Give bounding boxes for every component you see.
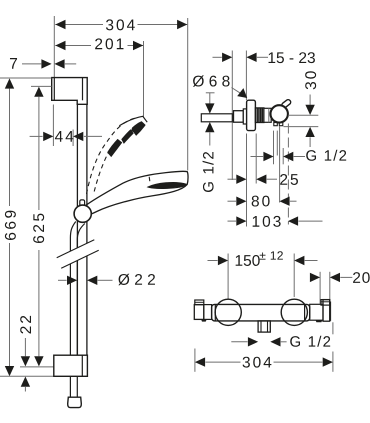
dim 625 extension top y=86.4	[31, 85, 52, 87]
hand shower solid: handle and head outline	[85, 171, 188, 216]
supply pipe stub through wall	[201, 114, 232, 122]
valve escutcheon (side view)	[247, 100, 256, 130]
label diameter 68 with leader arrow	[193, 75, 230, 86]
dim 7: arrows and text	[22, 63, 41, 65]
top wall bracket of slide bar	[52, 78, 87, 105]
wall extension line (left diagram, x=54.3)	[53, 16, 55, 78]
dim G1/2 of outlet (row) with leader to text	[251, 156, 264, 158]
hand shower holder circle on bar	[80, 200, 85, 208]
extension line escutcheon front x=246.4	[245, 51, 247, 101]
knob feet	[274, 123, 278, 126]
hand shower small tick on head	[148, 177, 151, 181]
bottom wall bracket of slide bar	[54, 355, 88, 376]
dim 22 rotated text and arrows	[20, 316, 31, 334]
valve body bar (front view)	[212, 304, 310, 321]
dim G1/2 outlet (front view): arrows and text	[231, 341, 247, 343]
dashed swivel arcs of hand shower alternate position	[87, 118, 137, 194]
extension lines for 25/80/103 rows	[246, 134, 248, 227]
bar pipe-break symbol (white band and diagonals)	[59, 240, 98, 267]
left wall escutcheon with top tab (front view)	[195, 300, 204, 305]
outlet stub lines below valve	[273, 131, 275, 165]
dim 20: lines, arrows, text	[319, 272, 321, 304]
thermostat knob (side view) with lever	[281, 99, 292, 109]
dim 625 vertical line with arrows and rotated text	[34, 87, 43, 97]
union nut behind escutcheon	[234, 111, 244, 123]
dim 80: arrows and text	[228, 200, 237, 202]
dim diameter 22 of bar: arrows and text	[58, 279, 67, 281]
dashed extension from knob front x=288.4	[287, 124, 289, 225]
hose conical end fitting	[68, 397, 82, 407]
left union nut (front view)	[204, 305, 212, 320]
right union dark foot	[316, 320, 323, 322]
dim 669 extension top y=78	[0, 77, 52, 79]
dim 201: line, arrows, text	[55, 45, 91, 47]
hand shower holder hose going down	[70, 222, 75, 397]
wall/tile vertical line x=232.3	[231, 51, 233, 181]
dim 15-23: arrows and text	[213, 56, 222, 58]
dim 103: arrows and text	[228, 220, 237, 222]
right union nut (front view)	[310, 304, 323, 320]
dim 25: arrows and text	[228, 178, 237, 180]
left knob circle (front view)	[215, 299, 241, 325]
extension line at shower head right edge x=187.7	[187, 18, 189, 171]
ribbed connector block	[255, 108, 264, 123]
extension line for 201 right x=143.5	[143, 41, 145, 117]
dim 44: extension lines, arrows, text	[52, 105, 54, 147]
dim 150+-12: arrows and text with superscript	[208, 260, 218, 262]
dim G1/2 left: tick, arrows, rotated text	[206, 92, 215, 94]
hand shower solid: spray face dark band	[147, 182, 186, 188]
dim 304 bottom: extension lines, arrows, text	[194, 349, 196, 372]
dim 304 top: line, arrows, text	[55, 24, 103, 26]
dim 150+-12: extension lines from knob centers	[227, 254, 229, 300]
right knob circle (front view)	[281, 299, 307, 325]
dim 669 vertical line with arrows and rotated text	[5, 78, 14, 88]
hand shower head in raised (dashed) position with spray face	[119, 116, 147, 126]
dim 30: rotated text, reference lines and arrows	[305, 71, 316, 89]
dim 625/22 extension y=366.9	[20, 366, 54, 368]
outlet stub bottom center (front view)	[258, 321, 270, 332]
slide bar vertical tube	[76, 104, 78, 355]
right wall escutcheon with top tab (front view)	[321, 300, 330, 306]
left union dark foot	[201, 320, 206, 322]
valve mid body block	[264, 108, 271, 122]
dim 669 extension bottom y=376.3	[0, 375, 54, 377]
